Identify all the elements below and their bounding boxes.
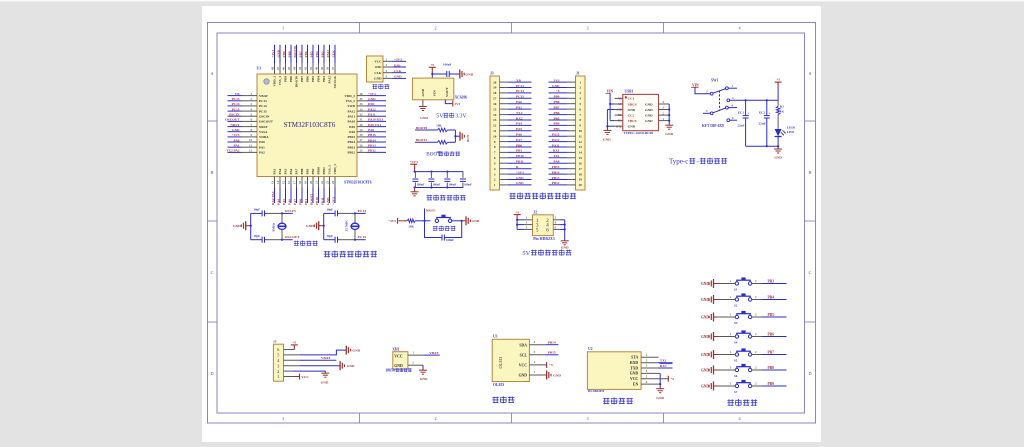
svg-text:S1: S1 [734,287,738,291]
svg-text:PA5: PA5 [516,127,522,131]
svg-text:GND: GND [472,219,480,223]
svg-text:CLK: CLK [331,50,335,58]
mcu U1 left pin 4 PC15 wire+label [228,110,242,112]
svg-text:100nF: 100nF [417,183,425,187]
svg-text:PB15: PB15 [548,351,556,355]
wire GND pin down [422,100,424,107]
svg-text:26: 26 [360,143,364,147]
svg-text:GND: GND [630,372,639,376]
svg-text:3V3: 3V3 [454,102,460,106]
crystal 8MHz [281,213,283,223]
svg-text:PA1: PA1 [516,105,522,109]
caption MCU pin headers [509,193,515,195]
resistor 10K (reset) [407,219,415,223]
svg-text:+5: +5 [670,377,674,381]
svg-text:PA12: PA12 [552,138,560,142]
svg-text:PB3: PB3 [768,280,775,284]
svg-text:PA6: PA6 [287,199,291,205]
mcu U1 right pin 36 VDD_2 wire+label [357,95,367,97]
svg-text:VIN: VIN [433,90,437,97]
svg-text:PB14: PB14 [347,140,355,144]
svg-text:PB2: PB2 [311,168,315,174]
power 3V3 out [452,101,454,107]
mcu U1 bottom pin 13 PA3 wire+label [274,177,276,188]
sw SW1 pole1 [710,92,713,95]
svg-text:CC1: CC1 [628,97,635,101]
svg-text:2: 2 [434,26,436,31]
svg-text:PB8: PB8 [768,366,775,370]
svg-text:DIO: DIO [375,65,382,69]
mcu U1 top pin 44 BOOT0 wire+label [296,45,298,63]
svg-text:14: 14 [276,181,280,185]
svg-text:PB13: PB13 [552,176,560,180]
wire bottom node (xtal1) [266,239,282,241]
svg-text:PB7: PB7 [553,105,559,109]
mcu U1 bottom pin 20 PB2 wire+label [312,177,314,188]
svg-text:XH1: XH1 [392,348,399,352]
svg-text:PB9: PB9 [553,95,559,99]
wire sw pin4 stub [728,107,737,109]
svg-text:11: 11 [579,134,582,138]
svg-text:19: 19 [579,178,583,182]
led LED1 [775,129,782,136]
svg-text:GND: GND [352,348,360,352]
svg-text:PA15: PA15 [552,133,560,137]
svg-text:GND: GND [374,77,382,81]
svg-text:44: 44 [293,67,297,71]
svg-text:U2: U2 [588,347,593,351]
svg-text:GND: GND [326,197,330,205]
capacitor 100nF filter 4 [462,172,464,178]
svg-text:PA1: PA1 [259,145,265,149]
svg-text:PB3: PB3 [322,76,326,82]
header J2 body [533,215,554,236]
svg-text:BOOT1: BOOT1 [416,138,428,142]
svg-text:PB14: PB14 [548,341,556,345]
svg-text:GND: GND [347,364,355,368]
svg-text:PB7: PB7 [768,351,775,355]
mcu U1 bottom pin 18 PB0 wire+label [301,177,303,188]
svg-text:+5: +5 [549,363,553,367]
mcu U1 bottom pin 14 PA4 wire+label [279,177,281,188]
svg-text:PB11: PB11 [322,167,326,175]
mcu U1 right pin 35 VSS_2 wire+label [357,100,367,102]
svg-text:+3V3: +3V3 [368,92,376,96]
mcu U1 bottom pin 15 PA5 wire+label [285,177,287,188]
typec bottom rail [746,145,779,147]
svg-text:32: 32 [360,112,364,116]
svg-text:100nF: 100nF [433,183,441,187]
net label NRST [424,208,426,220]
svg-text:VBUS: VBUS [628,102,637,106]
svg-text:GND: GND [656,396,664,400]
svg-text:39: 39 [320,67,324,71]
svg-text:BOOT1: BOOT1 [309,193,313,205]
svg-text:PA7: PA7 [293,199,297,205]
svg-text:5: 5 [277,353,279,358]
svg-text:YB: YB [516,78,521,82]
svg-text:GND: GND [628,125,636,129]
svg-text:+5: +5 [430,63,434,67]
resistor 10K (BOOT1) [438,141,448,145]
wire sw pin3 to rail [730,99,746,101]
svg-text:PC15: PC15 [516,95,524,99]
svg-text:NRST: NRST [230,123,240,127]
svg-text:PB4: PB4 [768,296,775,300]
svg-text:GND: GND [394,364,403,368]
svg-text:PA8: PA8 [349,130,355,134]
svg-text:36: 36 [360,92,364,96]
svg-text:PA6: PA6 [289,168,293,174]
svg-text:30pF: 30pF [327,208,334,212]
bt U2 body [587,352,641,390]
svg-text:10: 10 [493,134,497,138]
svg-text:32.768K: 32.768K [345,220,349,232]
svg-text:PB11: PB11 [320,197,324,205]
svg-text:30: 30 [360,123,364,127]
svg-text:PB0: PB0 [300,168,304,174]
svg-text:PB12: PB12 [347,151,355,155]
wire sw pin1 stub [728,87,737,89]
svg-text:PB4: PB4 [315,51,319,57]
svg-text:VCC: VCC [630,377,638,381]
svg-text:43: 43 [298,67,302,71]
svg-text:PB15: PB15 [368,133,376,137]
svg-text:PA9 TX1: PA9 TX1 [368,123,381,127]
svg-text:PB10: PB10 [317,167,321,175]
svg-text:PB13: PB13 [347,145,355,149]
svg-text:GND: GND [774,156,782,160]
svg-text:VBAT: VBAT [259,94,269,98]
mcu U1 top pin 37 SWCLK wire+label [334,45,336,63]
mcu U1 bottom pin 24 VDD_1 wire+label [334,177,336,188]
power +5 (typec) [777,87,779,100]
svg-text:PB8: PB8 [287,51,291,57]
svg-text:GND: GND [368,97,376,101]
svg-text:TYPEC-2SED-BCP6: TYPEC-2SED-BCP6 [624,131,654,135]
svg-text:B: B [809,170,812,175]
svg-text:VSSA: VSSA [259,130,268,134]
svg-text:R1: R1 [780,104,784,108]
svg-text:100nF: 100nF [464,183,472,187]
wire filter to gnd [414,188,416,192]
svg-text:EC2: EC2 [759,110,766,114]
svg-text:PA4: PA4 [276,199,280,205]
svg-text:PB4: PB4 [553,122,559,126]
svg-text:41: 41 [309,67,313,71]
svg-text:25: 25 [360,149,364,153]
sw SW1 pole2 [710,112,713,115]
svg-text:GND: GND [420,377,428,381]
svg-text:PB9: PB9 [282,51,286,57]
mcu U1 top pin 43 PB7 wire+label [301,45,303,63]
schematic page [202,6,821,442]
mcu U1 right pin 25 PB12 wire+label [357,151,367,153]
svg-text:19: 19 [304,181,308,185]
svg-text:VB: VB [235,92,240,96]
svg-text:NRST: NRST [259,125,269,129]
svg-text:GND: GND [701,335,709,339]
svg-text:PB1: PB1 [306,168,310,174]
svg-text:VBAT: VBAT [321,356,331,360]
svg-text:12: 12 [579,140,583,144]
svg-text:BOOT0: BOOT0 [295,76,299,88]
mcu U1 top pin 39 PB3 wire+label [323,45,325,63]
svg-text:PA11: PA11 [368,113,376,117]
svg-text:16: 16 [287,181,291,185]
mcu U1 left pin 9 VDDA wire+label [228,136,242,138]
svg-text:DIO: DIO [368,102,375,106]
svg-text:U1: U1 [257,67,262,71]
svg-text:GND: GND [276,49,280,57]
svg-text:SW1: SW1 [711,79,719,83]
svg-text:J1: J1 [576,72,580,76]
svg-text:C: C [809,270,812,275]
svg-text:PC13: PC13 [259,99,267,103]
svg-text:+5: +5 [556,89,560,93]
svg-text:STA: STA [631,356,638,360]
wire rail (xtal1) [250,213,252,239]
mcu U1 left pin 6 OSCOUT wire+label [228,120,242,122]
svg-text:PA12: PA12 [368,107,376,111]
svg-text:RX2: RX2 [516,116,523,120]
mcu U1 right pin 32 PA11 wire+label [357,115,367,117]
svg-text:PB10: PB10 [516,154,524,158]
svg-text:13: 13 [271,181,275,185]
svg-text:11: 11 [249,143,252,147]
mcu U1 bottom pin 16 PA6 wire+label [290,177,292,188]
svg-text:30pF: 30pF [254,234,261,238]
svg-text:18: 18 [493,91,497,95]
svg-text:GND: GND [701,282,709,286]
svg-text:PB14: PB14 [552,170,560,174]
ground (regulator) [419,106,427,108]
svg-text:PB5: PB5 [309,51,313,57]
svg-text:S7: S7 [734,390,738,394]
svg-text:GND: GND [394,75,402,79]
key S1 button+wire+label PB3 [718,283,736,285]
svg-text:BOOT0: BOOT0 [416,126,428,130]
capacitor 100nF (reg) [446,71,448,77]
svg-text:PA12: PA12 [348,109,356,113]
wire +5 into VIN [431,74,433,78]
svg-text:PA8: PA8 [368,128,374,132]
usb left wiring gnd net [606,110,608,131]
svg-text:13: 13 [493,118,497,122]
caption MCU minimal system [324,251,330,253]
wire top node (xtal2) [339,212,355,214]
svg-text:USB1: USB1 [625,90,634,94]
svg-text:PA7: PA7 [295,168,299,174]
svg-text:LED: LED [787,130,795,134]
svg-text:PB1: PB1 [304,199,308,205]
svg-text:11: 11 [493,129,496,133]
svg-text:PC15: PC15 [259,109,267,113]
svg-text:S6: S6 [734,374,738,378]
svg-text:GND: GND [701,384,709,388]
svg-text:PB6: PB6 [768,333,775,337]
filter top rail wire [415,171,464,173]
svg-text:PB7: PB7 [300,76,304,82]
mcu U1 right pin 30 PA9 wire+label [357,126,367,128]
svg-text:+: + [748,111,750,115]
ground (typec) [774,148,782,150]
mcu U1 left pin 1 VBAT wire+label [228,95,242,97]
key S6 button+wire+label PB8 [718,369,736,371]
wire BOOT1 res to join [448,141,456,143]
capacitor EC2 22uF [766,100,768,115]
svg-text:GND: GND [232,128,240,132]
wire BOOT0 res to join [448,129,456,131]
svg-text:33: 33 [360,107,364,111]
svg-text:SCL: SCL [520,353,528,357]
svg-text:42: 42 [304,67,308,71]
svg-text:VCC: VCC [394,354,402,358]
svg-text:HC0802H1: HC0802H1 [588,389,605,393]
reset button [425,220,431,222]
svg-text:28: 28 [360,133,364,137]
svg-text:5V: 5V [436,114,444,120]
svg-text:PC14: PC14 [358,209,366,213]
svg-text:PC15: PC15 [232,107,240,111]
resistor 10K (BOOT0) [438,128,448,132]
svg-text:+3V3: +3V3 [271,49,275,57]
svg-text:SDA: SDA [519,343,527,347]
oled U3 body [492,339,529,381]
svg-text:GND: GND [421,88,425,96]
svg-text:PB5: PB5 [768,313,775,317]
svg-text:GND: GND [321,381,329,385]
svg-text:2: 2 [434,416,436,421]
regulator body [412,78,453,100]
svg-text:S5: S5 [734,358,738,362]
download header body [367,56,384,82]
svg-text:RX2 PA3: RX2 PA3 [271,191,275,205]
inner frame [217,33,805,413]
header J3 body [490,76,500,190]
svg-text:TX1: TX1 [660,359,667,363]
svg-text:TX2: TX2 [516,111,523,115]
svg-text:CC2: CC2 [628,113,635,117]
svg-text:23: 23 [326,181,330,185]
caption xiazaikou [372,84,377,86]
svg-text:21: 21 [315,181,319,185]
usb right gnd bus [668,104,670,125]
svg-text:Pin HDR2X3: Pin HDR2X3 [533,237,555,241]
svg-text:20: 20 [579,183,583,187]
svg-text:GND: GND [645,102,653,106]
svg-text:PA4: PA4 [516,122,522,126]
svg-text:GND: GND [701,353,709,357]
svg-text:PC15: PC15 [358,235,366,239]
svg-text:GND: GND [645,108,653,112]
svg-text:PB14: PB14 [368,138,376,142]
svg-text:17: 17 [293,181,297,185]
svg-text:PC13: PC13 [516,84,524,88]
svg-text:PC13: PC13 [232,97,240,101]
svg-text:PB5: PB5 [553,116,559,120]
wire sw pin6 stub [730,119,737,121]
capacitor 100nF filter 3 [446,172,448,178]
caption reset circuit [433,226,438,228]
ground (usb right) [665,124,673,126]
ground (bt) [656,388,664,390]
svg-text:GND: GND [665,132,673,136]
mcu U1 right pin 29 PA8 wire+label [357,131,367,133]
svg-text:PA6: PA6 [516,133,522,137]
svg-text:+5: +5 [292,341,296,345]
svg-text:VCC: VCC [301,375,309,379]
svg-text:OLED: OLED [493,383,504,387]
sw SW1 pin6 contact [727,119,730,122]
svg-text:VSS_2: VSS_2 [346,99,356,103]
svg-text:GND: GND [306,224,314,228]
capacitor 30pF top (xtal2) [324,212,335,214]
svg-text:PB8: PB8 [553,100,559,104]
svg-text:BOOT: BOOT [426,152,441,158]
wire VOUT to 3V3 [445,100,452,104]
wire +5 to cap [432,73,447,75]
mcu U1 right pin 26 PB13 wire+label [357,146,367,148]
capacitor 30pF top (xtal1) [251,212,262,214]
svg-text:20: 20 [493,80,497,84]
svg-text:+3V3: +3V3 [232,133,240,137]
svg-text:6: 6 [277,347,279,352]
svg-text:14: 14 [579,151,583,155]
svg-text:+3V3: +3V3 [394,58,402,62]
svg-text:100nF: 100nF [449,183,457,187]
svg-text:PB1: PB1 [516,149,522,153]
svg-text:47: 47 [276,67,280,71]
svg-text:PA7: PA7 [516,138,522,142]
svg-text:GND: GND [516,181,524,185]
mcu U1 bottom pin 17 PA7 wire+label [296,177,298,188]
ground (reset) [462,220,466,222]
mcu U1 left pin 3 PC14 wire+label [228,105,242,107]
ground (battery) [419,369,427,371]
svg-text:TX2 PA2: TX2 PA2 [226,149,240,153]
ground (filter) [411,191,419,193]
key S7 button+wire+label PB9 [718,385,736,387]
svg-text:CLK: CLK [374,71,382,75]
svg-text:22uF: 22uF [737,124,744,128]
svg-text:3: 3 [586,416,588,421]
svg-text:TXD: TXD [630,366,638,370]
svg-text:24: 24 [331,181,335,185]
svg-text:PB0: PB0 [516,143,522,147]
svg-text:PA5: PA5 [282,199,286,205]
usb USB1 pin1 mark [625,96,627,98]
svg-text:KFT DIP-6X8: KFT DIP-6X8 [702,124,724,128]
capacitor EC1 22uF [745,100,747,115]
key S3 button+wire+label PB5 [718,316,736,318]
svg-text:PB13: PB13 [368,144,376,148]
svg-text:PA9: PA9 [349,125,355,129]
svg-text:PB6: PB6 [306,76,310,82]
svg-text:PC14: PC14 [259,104,267,108]
mcu U1 bottom pin 19 PB1 wire+label [307,177,309,188]
svg-text:RX1: RX1 [553,149,560,153]
wire sw pin5 stub [703,112,710,114]
svg-text:16: 16 [579,161,583,165]
svg-text:DIO: DIO [394,63,401,67]
svg-text:100nF: 100nF [446,238,454,242]
svg-text:8MHz: 8MHz [272,222,276,231]
svg-text:1: 1 [282,416,284,421]
svg-text:PB12: PB12 [552,181,560,185]
svg-text:PB3: PB3 [553,127,559,131]
svg-text:3V3: 3V3 [554,78,560,82]
